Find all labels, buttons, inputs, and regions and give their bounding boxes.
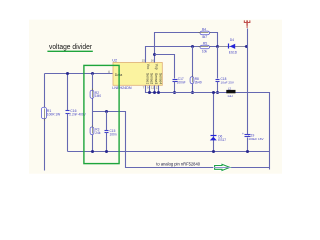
wire C18 bottom (217, 82, 219, 93)
resistor R5 (199, 46, 211, 48)
title underline (47, 50, 92, 52)
svg-text:ES17: ES17 (218, 138, 226, 142)
wire C18 vertical (217, 47, 219, 79)
wire R8 bottom (192, 84, 194, 93)
junction D6 / mid rail (212, 91, 215, 94)
svg-text:Sense3: Sense3 (154, 73, 158, 84)
resistor R2 (92, 89, 94, 100)
svg-text:16: 16 (151, 59, 155, 63)
wire C15 vertical top (106, 112, 108, 131)
node wire divider tap (93, 112, 270, 168)
zener D6 wire (213, 93, 215, 152)
svg-text:1M0: 1M0 (95, 94, 101, 98)
resistor R3 (92, 126, 94, 136)
svg-text:to analog pin nRF52840: to analog pin nRF52840 (156, 161, 200, 166)
junction R8 top (191, 45, 194, 48)
svg-text:Sense1: Sense1 (145, 73, 149, 84)
capacitor C15 (105, 130, 109, 132)
wire R3 vertical top (92, 112, 94, 127)
svg-text:2k49: 2k49 (195, 81, 202, 85)
diode D4 (230, 44, 236, 49)
junction R3 / bottom rail (91, 150, 94, 153)
svg-text:+: + (242, 132, 244, 136)
wire C17 bottom (174, 82, 176, 93)
svg-text:4: 4 (108, 70, 110, 74)
wire top-left horizontal to IC pin 4 (45, 73, 113, 75)
wire C16 vertical bottom (67, 114, 69, 152)
wire R2 vertical top (92, 74, 94, 91)
junction C18 / mid rail (216, 91, 219, 94)
svg-text:Vcc: Vcc (146, 64, 150, 70)
junction power at diode wire (245, 45, 248, 48)
svg-text:100n: 100n (110, 132, 117, 136)
svg-text:15: 15 (142, 59, 146, 63)
svg-text:LNBH24DN: LNBH24DN (112, 86, 132, 90)
capacitor C16 (66, 110, 70, 112)
wire R2 bottom to node (92, 99, 94, 112)
wire C16 vertical top (67, 74, 69, 111)
resistor R8 (192, 76, 194, 85)
power vertical wire (247, 29, 249, 135)
wire pin16 up and across top (155, 33, 218, 63)
svg-text:L2: L2 (228, 86, 232, 90)
green highlight box (84, 65, 119, 163)
svg-text:1uH: 1uH (227, 94, 233, 98)
svg-text:24k: 24k (95, 131, 101, 135)
svg-text:Sense2: Sense2 (150, 73, 154, 84)
wire R1 vertical top (44, 74, 46, 108)
net arrow (215, 164, 230, 170)
junction C15 / bottom rail (105, 150, 108, 153)
wire R3 vertical bottom (92, 135, 94, 152)
svg-text:10uF 25V: 10uF 25V (221, 81, 235, 85)
capacitor C17 (173, 79, 178, 81)
svg-text:R5: R5 (203, 41, 207, 45)
wire C17 branch (155, 55, 175, 79)
IC U2 body (113, 63, 162, 86)
resistor R1 (44, 107, 46, 121)
svg-text:10k: 10k (202, 49, 208, 53)
wire R1 vertical bottom (44, 119, 46, 171)
junction C19 / bottom rail (246, 150, 249, 153)
svg-text:11: 11 (151, 86, 154, 90)
inductor L2 (226, 90, 235, 93)
wire C15 vertical bottom (106, 133, 108, 152)
power flag +12V (244, 20, 251, 25)
svg-text:Sense4: Sense4 (158, 73, 162, 84)
svg-text:D4: D4 (230, 38, 234, 42)
svg-text:100R 1W: 100R 1W (47, 113, 60, 117)
wire R8 vertical (192, 47, 194, 77)
svg-text:ES1D: ES1D (229, 51, 238, 55)
zener diode D6 (210, 137, 217, 141)
capacitor C18 (216, 79, 220, 81)
svg-text:100nF: 100nF (177, 81, 186, 85)
resistor R4 (199, 32, 211, 34)
diode D4 pin leads (gray) (219, 46, 245, 48)
capacitor C19 polarized (245, 134, 251, 136)
svg-text:voltage divider: voltage divider (49, 42, 92, 51)
svg-text:Vup: Vup (155, 64, 159, 70)
junction IC pins / mid rail (148, 91, 151, 94)
svg-text:4k7: 4k7 (202, 35, 207, 39)
bottom rail wire (68, 151, 270, 153)
node junction top rail (66, 72, 69, 75)
junction R8 / mid rail (191, 91, 194, 94)
wire pin15 up and across (146, 47, 247, 63)
IC bottom pin stubs (149, 86, 151, 93)
mid rail wire (146, 86, 270, 170)
junction C18 top (216, 45, 219, 48)
junction D6 / bottom rail (212, 150, 215, 153)
wire C19 bottom (247, 138, 249, 152)
svg-text:100uF 16V: 100uF 16V (248, 137, 264, 141)
svg-text:R4: R4 (202, 27, 206, 31)
svg-text:U2: U2 (112, 59, 117, 63)
junction pin16 branch (153, 53, 156, 56)
junction C17 / mid rail (173, 91, 176, 94)
